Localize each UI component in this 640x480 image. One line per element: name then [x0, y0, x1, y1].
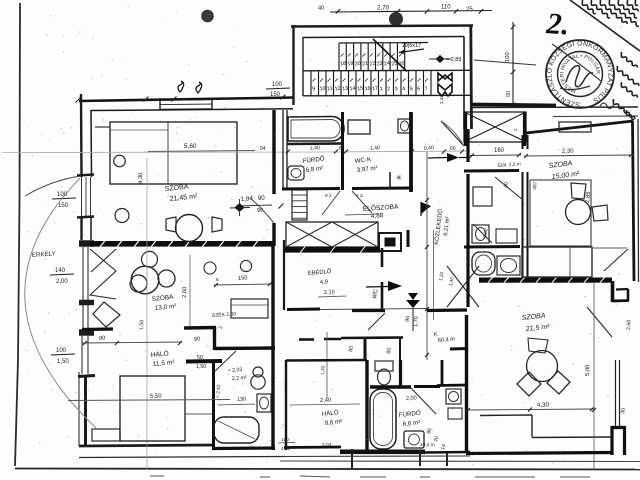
svg-text:90: 90 — [99, 335, 106, 342]
szoba 12 table — [131, 266, 159, 294]
svg-text:2,10: 2,10 — [324, 289, 335, 296]
svg-text:1,50: 1,50 — [139, 320, 145, 330]
svg-text:80: 80 — [348, 345, 355, 352]
svg-text:2,00: 2,00 — [406, 395, 417, 402]
dining table bottom of room — [176, 215, 203, 242]
washbasin — [348, 120, 370, 134]
svg-text:2: 2 — [513, 128, 518, 131]
wall right of wc room — [409, 112, 413, 192]
shelf — [448, 408, 462, 419]
small circle c — [204, 262, 216, 274]
svg-text:25: 25 — [466, 7, 473, 13]
window in top wall — [160, 98, 212, 110]
top outer wall — [79, 98, 293, 102]
north ornament symbol — [438, 73, 452, 81]
svg-text:140: 140 — [55, 268, 66, 274]
svg-text:40: 40 — [318, 6, 324, 12]
svg-text:2,47: 2,47 — [439, 95, 444, 104]
svg-text:≈ 2,89: ≈ 2,89 — [446, 57, 462, 63]
scan bottom border line — [15, 469, 640, 470]
svg-text:2,03: 2,03 — [322, 442, 332, 448]
short wall wc room — [389, 172, 391, 189]
svg-text:100: 100 — [56, 348, 67, 354]
balcony door wall segments — [79, 244, 94, 333]
svg-text:90: 90 — [258, 194, 266, 202]
corridor door flag a — [447, 153, 459, 162]
carpet rect right room — [530, 180, 591, 246]
bathtub right — [472, 252, 495, 275]
dark wall under SZOBA 21,45 — [90, 241, 274, 247]
svg-text:60: 60 — [450, 146, 456, 152]
bottom wall of top-center rooms — [282, 187, 340, 191]
bed bottom-left room — [120, 376, 185, 441]
svg-text:17: 17 — [372, 86, 379, 93]
lower-left outer wall — [78, 336, 285, 458]
bottom dashes — [150, 476, 590, 477]
door flag b — [421, 202, 431, 214]
svg-text:90: 90 — [194, 336, 201, 343]
diagonal handwriting lines — [582, 0, 639, 120]
svg-text:6: 6 — [216, 277, 219, 283]
door diag bath lower — [214, 351, 236, 372]
bottom wall right block — [466, 453, 613, 454]
svg-text:150: 150 — [58, 203, 69, 209]
interior step lines — [480, 414, 532, 417]
wardrobe notch — [95, 126, 110, 128]
wall y170 to right room — [464, 169, 519, 173]
vertical dim 5,00 — [593, 283, 595, 470]
svg-text:2,85: 2,85 — [585, 191, 592, 203]
svg-text:1,50: 1,50 — [57, 359, 69, 365]
right step notch — [611, 281, 615, 302]
svg-text:150: 150 — [238, 275, 248, 282]
svg-text:1,70: 1,70 — [413, 316, 420, 327]
top dimension line — [330, 11, 492, 13]
washing machine — [404, 431, 424, 448]
svg-text:0,40: 0,40 — [424, 145, 435, 152]
svg-text:100: 100 — [272, 82, 283, 88]
corridor wall stub — [407, 230, 410, 247]
staircase treads lower row — [303, 71, 471, 96]
wall hallo top — [82, 327, 113, 331]
stair up diagonal — [373, 39, 407, 72]
wall step halo — [184, 326, 216, 330]
svg-text:18: 18 — [340, 61, 347, 68]
svg-text:13: 13 — [342, 86, 349, 93]
svg-text:50: 50 — [506, 91, 512, 97]
official round stamp — [474, 39, 614, 108]
bathroom furdo walls — [370, 385, 411, 388]
svg-text:5,50: 5,50 — [150, 393, 163, 400]
svg-text:20|5x17: 20|5x17 — [402, 43, 421, 49]
rotated square furniture — [93, 302, 120, 327]
svg-text:1,40: 1,40 — [310, 145, 321, 152]
scribble below stamp — [600, 103, 614, 109]
svg-text:4,88: 4,88 — [371, 212, 384, 220]
svg-text:100: 100 — [505, 52, 511, 62]
scan left border line — [15, 3, 20, 466]
big wall y279 — [479, 278, 612, 283]
svg-text:487: 487 — [532, 181, 539, 190]
sink — [257, 394, 271, 412]
svg-text:≈ 2,03: ≈ 2,03 — [228, 367, 243, 374]
terrace step bar — [340, 450, 425, 455]
svg-text:1,50: 1,50 — [196, 364, 206, 370]
wardrobe ladder hall — [292, 190, 307, 220]
corridor right wall segments — [466, 129, 469, 162]
halo 9 room walls — [286, 359, 367, 362]
svg-text:2,70: 2,70 — [377, 5, 390, 12]
svg-text:2,40: 2,40 — [320, 397, 332, 404]
closet bottom-left — [92, 429, 120, 441]
pillar bottom right — [612, 428, 625, 456]
svg-text:✳: ✳ — [396, 174, 402, 182]
door swing right wall — [604, 249, 628, 271]
wall pair x283-287 — [282, 110, 284, 190]
long X window box hall — [286, 222, 378, 247]
upper-right bathroom details — [473, 187, 492, 206]
left outer wall upper — [77, 94, 94, 240]
svg-text:160: 160 — [494, 148, 505, 154]
washbasin right — [497, 256, 520, 275]
big door X right of hall — [447, 266, 479, 307]
wall between bath and wc — [341, 112, 344, 190]
faint pencil line across — [2, 151, 330, 154]
svg-text:9 2: 9 2 — [325, 193, 332, 199]
right lower double wall lines — [615, 360, 617, 428]
svg-text:4,30: 4,30 — [138, 173, 144, 184]
door flag c — [388, 281, 402, 291]
central lower walls — [271, 348, 274, 450]
svg-text:2,60: 2,60 — [626, 320, 632, 330]
top-right room sloped top wall — [526, 121, 633, 133]
stove box — [379, 233, 401, 251]
door flag d — [408, 293, 418, 300]
table right room — [566, 200, 591, 225]
level marker diamond — [436, 55, 445, 63]
wall right of szoba12 — [283, 240, 285, 310]
wall y309 segments — [287, 308, 320, 312]
svg-text:20: 20 — [354, 61, 361, 68]
punch hole left — [202, 10, 214, 22]
svg-text:2,60: 2,60 — [182, 287, 188, 298]
sink furdo — [446, 389, 461, 404]
svg-text:110: 110 — [441, 5, 451, 11]
svg-text:12: 12 — [334, 86, 341, 93]
staircase mid line — [303, 69, 471, 72]
dark wall bar under X box — [285, 247, 380, 253]
X window bay top right — [464, 112, 526, 146]
radiator fixture left — [288, 166, 304, 180]
toilet furdo — [375, 361, 393, 371]
right vertical dimension line — [512, 22, 514, 108]
top inner wall — [91, 109, 293, 111]
wc upper right — [472, 225, 489, 243]
attached note diagonal edge — [570, 0, 640, 51]
svg-text:90: 90 — [405, 316, 412, 323]
svg-text:80: 80 — [386, 347, 393, 354]
svg-text:16: 16 — [364, 86, 371, 93]
svg-text:24: 24 — [384, 61, 391, 68]
wc small walls — [381, 248, 384, 267]
chimney squiggles above wall — [178, 81, 184, 92]
svg-text:54: 54 — [260, 146, 266, 152]
column marker diamond — [235, 203, 245, 212]
svg-text:130: 130 — [237, 397, 247, 403]
svg-text:2,00: 2,00 — [56, 279, 68, 285]
svg-text:10,2 m: 10,2 m — [420, 442, 435, 448]
central vertical wall — [271, 246, 274, 348]
closet walls below hall — [299, 338, 314, 341]
svg-text:2.: 2. — [545, 7, 571, 42]
bottom wall bath — [212, 446, 275, 450]
faint corner arc — [25, 178, 96, 428]
door swings small hall — [322, 191, 340, 215]
bed right room — [522, 247, 592, 277]
building right wall upper — [633, 121, 635, 281]
lower-left room walls — [186, 359, 222, 364]
desk top right room — [559, 122, 591, 132]
svg-text:15: 15 — [357, 86, 364, 93]
chair circle a — [114, 155, 126, 167]
punch hole right — [390, 13, 403, 26]
svg-text:5,00: 5,00 — [585, 365, 591, 376]
svg-text:≈ 2,40: ≈ 2,40 — [215, 384, 222, 398]
svg-text:22: 22 — [369, 61, 376, 68]
svg-text:23: 23 — [376, 61, 383, 68]
svg-text:4,9: 4,9 — [320, 279, 329, 286]
corridor center vertical dim — [426, 152, 428, 360]
bathroom upper right walls — [464, 245, 520, 249]
door diag furdo — [411, 388, 436, 414]
room SZOBA 21,45 bed — [110, 122, 237, 184]
staircase treads upper row — [339, 43, 428, 71]
shower tub — [214, 417, 259, 443]
door swing top corridor — [441, 121, 464, 146]
svg-text:1,40: 1,40 — [370, 145, 381, 152]
left block right wall — [272, 110, 275, 194]
svg-text:5,60: 5,60 — [184, 143, 197, 150]
staircase enclosure walls — [291, 25, 473, 129]
door swing lower right — [587, 307, 612, 337]
table lower right — [527, 351, 558, 382]
svg-text:4,30: 4,30 — [537, 401, 550, 409]
bottom wall left block — [79, 445, 213, 446]
bathtub vertical — [370, 389, 396, 449]
toilet — [253, 367, 263, 377]
window in left wall — [81, 177, 83, 217]
folding door zigzag — [90, 249, 116, 299]
stamp centre signature — [566, 66, 593, 87]
svg-text:19: 19 — [347, 61, 354, 68]
svg-text:2,2 m²: 2,2 m² — [232, 375, 247, 382]
svg-text:21: 21 — [362, 61, 369, 68]
svg-text:14: 14 — [349, 86, 356, 93]
bathtub top-center — [288, 117, 344, 142]
right room left wall — [522, 135, 524, 149]
svg-text:2,30: 2,30 — [562, 148, 575, 155]
svg-text:1,40: 1,40 — [320, 365, 327, 375]
svg-text:30: 30 — [620, 408, 627, 415]
svg-text:10: 10 — [319, 86, 326, 93]
entry door arc left — [25, 176, 81, 196]
svg-text:90: 90 — [257, 208, 264, 214]
wc fixture — [398, 119, 411, 133]
chair circle b — [115, 209, 129, 223]
cabinet nested rect — [231, 299, 268, 318]
vertical dim line x147 — [146, 158, 148, 470]
